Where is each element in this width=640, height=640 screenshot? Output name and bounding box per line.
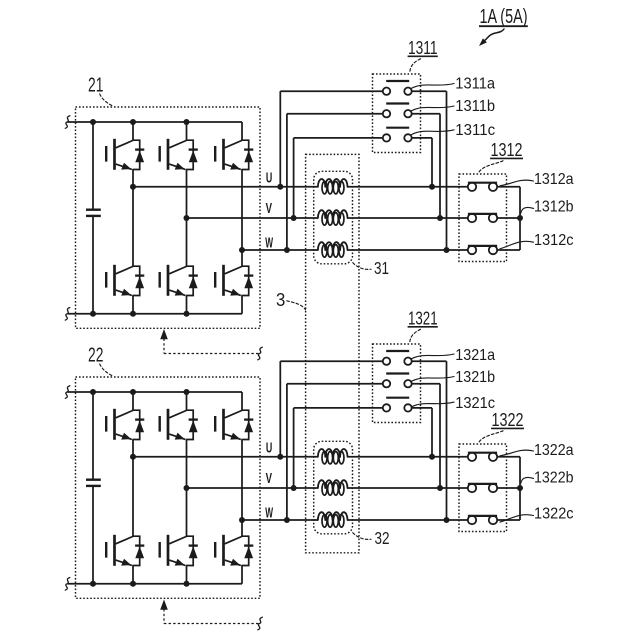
wire W to 1321b: [286, 384, 288, 520]
leg wires x=242 (22): [241, 392, 243, 410]
leader for 1311c: [412, 130, 455, 135]
svg-text:21: 21: [88, 75, 103, 97]
switch 1312c closed blade: [468, 245, 497, 247]
inductor block 32 dashed box: [314, 441, 353, 534]
phase tap dot (22 leg 1): [130, 454, 136, 460]
leader for 1322a: [500, 450, 534, 456]
DC bus negative (22): [68, 583, 243, 585]
wire break squiggle on - bus (21): [65, 308, 70, 321]
leader for 1322: [479, 431, 504, 444]
svg-text:W: W: [265, 235, 273, 251]
svg-text:1A (5A): 1A (5A): [480, 5, 528, 28]
filter box 3 dashed outline: [306, 154, 359, 552]
inverter 22 dashed box: [76, 377, 261, 598]
svg-text:1312c: 1312c: [534, 232, 574, 249]
wire 1311b output to V: [412, 113, 440, 115]
wire 1321b output to V: [412, 383, 440, 385]
junction dots on buses (22): [90, 389, 96, 395]
transistor Q1 upper (IGBT with antiparallel diode): [106, 139, 144, 170]
svg-text:32: 32: [375, 528, 390, 548]
DC bus positive (21): [68, 121, 243, 123]
switch 1312a contacts: [468, 183, 476, 191]
inductor 32U: [318, 449, 325, 457]
phase tap dot (21 leg 1): [130, 184, 136, 190]
leader for 1311a: [412, 84, 455, 89]
transistor Q22 upper (IGBT with antiparallel diode): [160, 409, 198, 440]
leader for 1321a: [412, 354, 455, 359]
svg-text:V: V: [266, 201, 272, 217]
svg-text:1311: 1311: [408, 37, 438, 58]
leader for 1321: [410, 329, 421, 343]
switch 1311a open blade: [386, 80, 409, 82]
inductor 32V: [318, 480, 325, 488]
leader for 1322c: [500, 515, 534, 522]
switch 1311a contacts: [383, 88, 390, 95]
svg-text:U: U: [266, 171, 272, 187]
wire 1321a output to W: [412, 360, 447, 362]
svg-text:31: 31: [374, 258, 389, 278]
switch 1311b open blade: [386, 102, 409, 104]
neutral tie bar of 1322: [519, 457, 521, 520]
phase line W (bottom): [242, 519, 318, 521]
wire V to 1311c: [293, 138, 295, 218]
inductor 31U: [318, 179, 325, 187]
DC bus positive (22): [68, 391, 243, 393]
capacitor C2 wires: [92, 392, 94, 480]
wire U to 1321a: [279, 361, 281, 457]
phase line V (bottom): [187, 487, 318, 489]
svg-text:1322: 1322: [492, 409, 524, 430]
phase line V (top): [187, 217, 318, 219]
leader for 1312a: [500, 180, 534, 186]
leg wires x=133 (21): [132, 122, 134, 140]
switch 1321a open blade: [386, 350, 409, 352]
leg wires x=186.5 (21): [186, 122, 188, 140]
svg-text:1321a: 1321a: [455, 347, 495, 364]
transistor Q6 lower (IGBT with antiparallel diode): [215, 265, 253, 296]
switch 1311c open blade: [386, 127, 409, 129]
svg-text:3: 3: [276, 289, 285, 310]
switch 1311b contacts: [383, 110, 390, 117]
switch 1311 dashed box: [373, 74, 421, 153]
phase line W (top): [242, 249, 318, 251]
DC bus negative (21): [68, 313, 243, 315]
leader for 1312c: [500, 241, 534, 248]
switch 1322c contacts: [468, 516, 476, 524]
capacitor C1 plates: [86, 208, 101, 210]
leader for 1311: [410, 59, 421, 73]
wire break squiggle control line 21: [258, 347, 263, 360]
switch 1312c contacts: [468, 246, 476, 254]
wire break squiggle on - bus (22): [65, 578, 70, 591]
leader for 1312b: [521, 207, 534, 213]
transistor Q24 lower (IGBT with antiparallel diode): [106, 535, 144, 566]
leader for 3: [287, 301, 306, 310]
leader for 22: [100, 364, 114, 376]
wire 1311a output to W: [412, 90, 447, 92]
phase tap dot (22 leg 3): [239, 517, 245, 523]
svg-text:1311c: 1311c: [455, 122, 495, 139]
wire W to 1311b: [286, 114, 288, 250]
leg wires x=186.5 (22): [186, 392, 188, 410]
svg-text:1321c: 1321c: [455, 395, 495, 412]
phase tap dot (21 leg 3): [239, 247, 245, 253]
leader for 1321c: [412, 402, 455, 407]
switch 1322b contacts: [468, 484, 476, 492]
switch 1321b contacts: [383, 380, 390, 387]
junction dots on buses (21): [90, 119, 96, 125]
transistor Q23 upper (IGBT with antiparallel diode): [215, 409, 253, 440]
switch 1322a contacts: [468, 453, 476, 461]
capacitor C1 wires: [92, 122, 94, 210]
control arrow into 22: [160, 600, 168, 610]
switch 1312b contacts: [468, 214, 476, 222]
svg-text:U: U: [266, 441, 272, 457]
switch 1322 dashed box: [459, 444, 507, 532]
svg-text:1322c: 1322c: [534, 506, 574, 523]
svg-text:1321b: 1321b: [455, 369, 495, 386]
leader for 1311b: [412, 106, 455, 111]
capacitor C2 plates: [86, 479, 101, 481]
inductor 31W: [318, 242, 325, 250]
switch 1322c closed blade: [468, 515, 497, 517]
neutral tie bar of 1312: [519, 187, 521, 250]
arrow for 1A (5A): [484, 29, 504, 42]
svg-text:1311b: 1311b: [455, 98, 495, 115]
svg-text:1311a: 1311a: [455, 76, 495, 93]
wire V to 1321c: [293, 408, 295, 488]
wire U to 1311a: [279, 91, 281, 187]
leg wires x=242 (21): [241, 122, 243, 140]
wire break squiggle on + bus (21): [65, 116, 70, 129]
wire break squiggle control line 22: [258, 617, 263, 630]
switch 1322b closed blade: [468, 483, 497, 485]
svg-text:W: W: [265, 505, 273, 521]
wire 1321c output to U: [412, 407, 432, 409]
svg-text:1322a: 1322a: [534, 442, 574, 459]
switch 1322a closed blade: [468, 452, 497, 454]
phase tap dot (22 leg 2): [184, 485, 190, 491]
transistor Q3 upper (IGBT with antiparallel diode): [215, 139, 253, 170]
svg-text:1312b: 1312b: [534, 198, 574, 215]
switch 1321c contacts: [383, 404, 390, 411]
svg-text:1312: 1312: [491, 139, 523, 160]
svg-text:22: 22: [88, 345, 103, 367]
leader for 1322b: [521, 477, 534, 483]
switch 1312 dashed box: [459, 174, 507, 262]
control arrow into 21: [160, 329, 168, 339]
leader for 21: [100, 94, 114, 106]
switch 1321c open blade: [386, 397, 409, 399]
leader for 1312: [479, 161, 504, 174]
inductor block 31 dashed box: [314, 171, 353, 263]
transistor Q21 upper (IGBT with antiparallel diode): [106, 409, 144, 440]
transistor Q5 lower (IGBT with antiparallel diode): [160, 265, 198, 296]
switch 1321 dashed box: [373, 344, 421, 423]
inverter 21 dashed box: [76, 107, 261, 328]
phase line U (top): [133, 186, 318, 188]
phase line U (bottom): [133, 456, 318, 458]
svg-text:1322b: 1322b: [534, 469, 574, 486]
svg-text:V: V: [266, 471, 272, 487]
wire 1311c output to U: [412, 137, 432, 139]
inductor 31V: [318, 210, 325, 218]
phase tap dot (21 leg 2): [184, 215, 190, 221]
switch 1312a closed blade: [468, 182, 497, 184]
leg wires x=133 (22): [132, 392, 134, 410]
switch 1321b open blade: [386, 372, 409, 374]
switch 1312b closed blade: [468, 213, 497, 215]
wire break squiggle on + bus (22): [65, 386, 70, 399]
svg-text:1321: 1321: [408, 308, 438, 329]
svg-text:1312a: 1312a: [534, 171, 574, 188]
transistor Q4 lower (IGBT with antiparallel diode): [106, 265, 144, 296]
transistor Q2 upper (IGBT with antiparallel diode): [160, 139, 198, 170]
transistor Q26 lower (IGBT with antiparallel diode): [215, 535, 253, 566]
inductor 32W: [318, 512, 325, 520]
switch 1321a contacts: [383, 358, 390, 365]
leader for 31: [353, 263, 371, 270]
switch 1311c contacts: [383, 134, 390, 141]
leader for 32: [353, 533, 371, 540]
transistor Q25 lower (IGBT with antiparallel diode): [160, 535, 198, 566]
leader for 1321b: [412, 377, 455, 382]
